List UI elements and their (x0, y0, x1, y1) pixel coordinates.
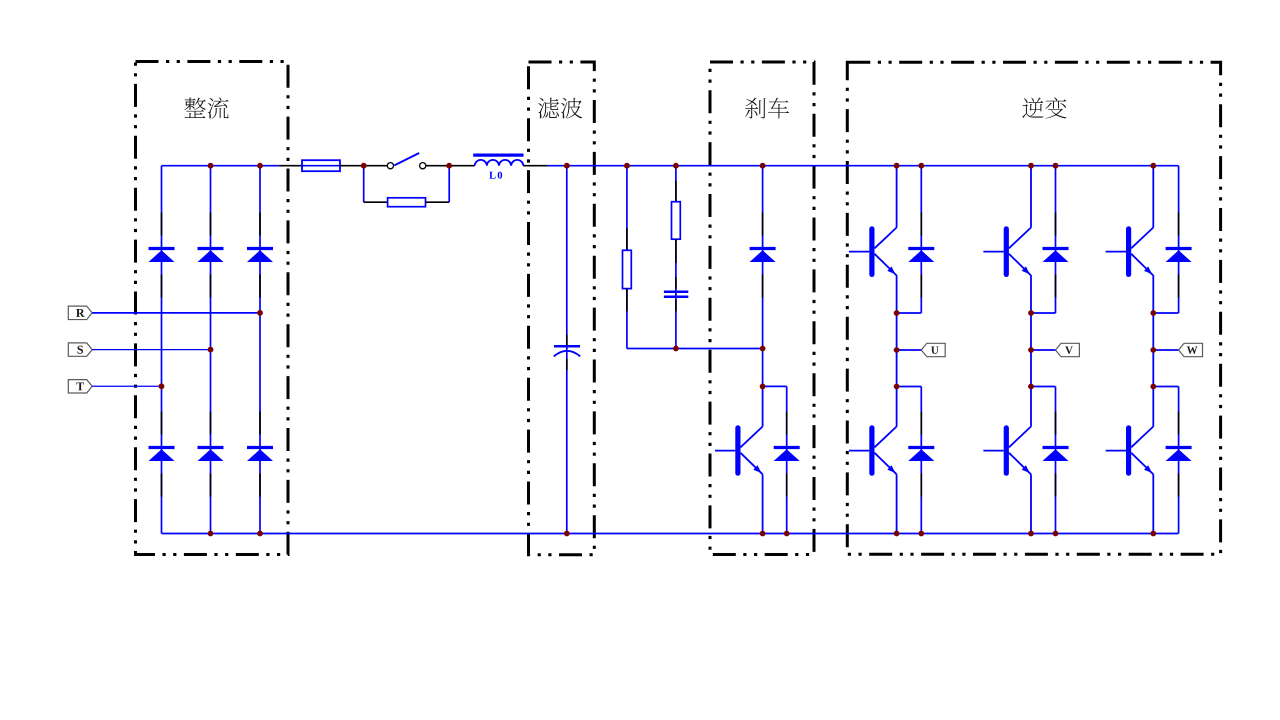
wire: leg V output (1031, 349, 1056, 351)
wire: leg U lower collector (896, 387, 898, 427)
junction: bottom bus x=896.6 (894, 531, 900, 537)
wire: leg U upper collector (896, 166, 898, 228)
wire: leg V upper emitter (1030, 275, 1032, 313)
wire: leg W midpoint (1152, 313, 1154, 387)
wire: leg W upper diode branch (1178, 166, 1180, 313)
inductor L0 (473, 155, 523, 179)
section box: inverter 逆变 (847, 62, 1220, 554)
wire: leg W upper diode return (1153, 312, 1178, 314)
junction: top bus x=1153.3 (1150, 163, 1156, 169)
junction: top bus x=1055.5 (1053, 163, 1059, 169)
junction: brake RC node (673, 346, 679, 352)
wire: bypass loop right rise (448, 166, 450, 203)
wire: rectifier leg 3 vertical (259, 166, 261, 534)
wire: phase S input (92, 349, 210, 351)
wire: brake diode branch (762, 166, 764, 349)
junction: leg V lower collector node (1028, 384, 1034, 390)
transistor Q4 (inverter V high side) (983, 228, 1031, 276)
diode D11 (leg V upper freewheel) (1043, 213, 1069, 298)
wire: filter capacitor branch (566, 166, 568, 534)
title 滤波 (filter) (538, 98, 582, 119)
section box: filter 滤波 (529, 62, 595, 555)
capacitor C1 (DC bus electrolytic) (554, 346, 580, 356)
wire: leg V lower collector (1030, 387, 1032, 427)
resistor R3 (672, 202, 681, 240)
section box: rectifier 整流 (136, 62, 289, 555)
wire: bypass loop left drop (363, 166, 365, 203)
wire: leg V upper diode branch (1055, 166, 1057, 313)
wire: rectifier leg 2 vertical (210, 166, 212, 534)
capacitor C2 (snubber) (664, 292, 688, 297)
junction: top bus x=921.3 (918, 163, 924, 169)
pin: fuse left lead (279, 165, 302, 167)
junction: leg V output node (1028, 347, 1034, 353)
wire: Q1 collector (762, 386, 764, 426)
junction: top bus x=566.8 (564, 163, 570, 169)
pin: charging resistor right lead (426, 201, 450, 203)
junction: leg W output node (1150, 347, 1156, 353)
junction: leg U lower collector node (894, 384, 900, 390)
wire: leg U lower emitter (896, 474, 898, 533)
wire: brake node drop (762, 349, 764, 387)
junction: leg W upper emitter node (1150, 310, 1156, 316)
port W (1179, 343, 1203, 356)
pin: C1 top lead (566, 335, 568, 346)
wire: rectifier leg 1 vertical (161, 166, 163, 534)
wire: leg W upper collector (1152, 166, 1154, 228)
wire: to brake freewheel diode (763, 385, 787, 387)
junction: top bus x=260 (257, 163, 263, 169)
pin: R3 top lead (675, 181, 677, 202)
pin: R3 bottom lead (675, 239, 677, 263)
junction: top bus x=363.7 (361, 163, 367, 169)
wire: leg V lower diode feed (1031, 386, 1056, 388)
junction: bottom bus x=1055.5 (1053, 531, 1059, 537)
diode D1 (rectifier top row) (149, 213, 175, 298)
junction: bottom bus x=260 (257, 531, 263, 537)
section box: brake 刹车 (710, 62, 814, 555)
junction: bottom bus x=1031.0 (1028, 531, 1034, 537)
port R (68, 306, 92, 319)
wire: top DC+ bus (547, 165, 1179, 167)
junction: top bus x=449.2 (446, 163, 452, 169)
transistor Q2 (inverter U high side) (849, 228, 897, 276)
diode D7 (brake) (750, 213, 776, 298)
junction: brake collector node (760, 384, 766, 390)
wire: leg W lower emitter (1152, 474, 1154, 533)
wire: brake network bottom rail (627, 348, 763, 350)
title 刹车 (brake) (745, 98, 789, 119)
junction: top bus x=896.6 (894, 163, 900, 169)
wire: leg U lower diode branch (920, 387, 922, 534)
wire: leg U upper diode return (897, 312, 922, 314)
diode D8 (brake freewheel) (774, 412, 800, 497)
wire: leg V upper collector (1030, 166, 1032, 228)
junction: T phase node (159, 383, 165, 389)
diode D3 (rectifier top row) (247, 213, 273, 298)
junction: top bus x=675.9 (673, 163, 679, 169)
wire: leg U midpoint (896, 313, 898, 387)
diode D9 (leg U upper freewheel) (908, 213, 934, 298)
transistor Q5 (inverter V low side) (983, 427, 1031, 475)
transistor Q3 (inverter U low side) (849, 427, 897, 475)
junction: top bus x=210.5 (208, 163, 214, 169)
junction: top bus x=626.9 (624, 163, 630, 169)
wire: leg V lower emitter (1030, 474, 1032, 533)
wire: leg W lower collector (1152, 387, 1154, 427)
pin: inductor left lead (449, 165, 475, 167)
diode D5 (rectifier bottom row) (198, 412, 224, 497)
junction: leg V upper emitter node (1028, 310, 1034, 316)
diode D10 (leg U lower freewheel) (908, 412, 934, 497)
diode D6 (rectifier bottom row) (247, 412, 273, 497)
wire: bottom DC- bus (162, 533, 1179, 535)
junction: leg U upper emitter node (894, 310, 900, 316)
wire: phase T input (92, 385, 161, 387)
wire: leg U lower diode feed (897, 386, 922, 388)
wire: leg W lower diode branch (1178, 387, 1180, 534)
wire: leg W lower diode feed (1153, 386, 1178, 388)
port T (68, 380, 92, 393)
resistor R1 (charging resistor) (388, 198, 426, 207)
junction: top bus x=762.6 (760, 163, 766, 169)
junction: S phase node (208, 347, 214, 353)
title 整流 (rectifier) (184, 97, 228, 118)
pin: R2 bottom lead (626, 289, 628, 312)
diode D4 (rectifier bottom row) (149, 412, 175, 497)
wire: brake branch B vertical (675, 166, 677, 349)
junction: leg W lower collector node (1150, 384, 1156, 390)
port S (68, 343, 92, 356)
junction: bottom bus x=921.3 (918, 531, 924, 537)
wire: leg V lower diode branch (1055, 387, 1057, 534)
pin: inductor right lead (523, 165, 547, 167)
pin: R2 top lead (626, 228, 628, 250)
fuse F1 (302, 160, 340, 171)
port U (921, 343, 945, 356)
wire: leg W upper emitter (1152, 275, 1154, 313)
wire: leg U upper diode branch (920, 166, 922, 313)
wire: leg V upper diode return (1031, 312, 1056, 314)
pin: C1 bottom lead (566, 359, 568, 370)
wire: Q1 emitter (762, 474, 764, 533)
diode D2 (rectifier top row) (198, 213, 224, 298)
pin: fuse right lead (340, 165, 364, 167)
wire: leg U upper emitter (896, 275, 898, 313)
junction: leg U output node (894, 347, 900, 353)
port V (1056, 343, 1080, 356)
junction: bottom bus x=566.8 (564, 531, 570, 537)
transistor Q7 (inverter W low side) (1106, 427, 1154, 475)
wire: leg U output (897, 349, 922, 351)
pin: charging resistor left lead (364, 201, 388, 203)
junction: bottom bus x=786.7 (784, 531, 790, 537)
title 逆变 (inverter) (1022, 97, 1066, 118)
wire: leg V midpoint (1030, 313, 1032, 387)
wire: brake branch A vertical (626, 166, 628, 349)
junction: brake diode node (760, 346, 766, 352)
wire: leg W output (1153, 349, 1178, 351)
resistor R2 (623, 250, 632, 288)
junction: top bus x=1031.0 (1028, 163, 1034, 169)
junction: bottom bus x=762.6 (760, 531, 766, 537)
pin: switch left lead (364, 165, 387, 167)
switch S1 (bypass contact) (387, 153, 426, 169)
diode D12 (leg V lower freewheel) (1043, 412, 1069, 497)
transistor Q6 (inverter W high side) (1106, 228, 1154, 276)
diode D14 (leg W lower freewheel) (1166, 412, 1192, 497)
pin: C2 top lead (675, 277, 677, 289)
pin: C2 bottom lead (675, 300, 677, 312)
wire: phase R input (92, 312, 260, 314)
wire: top bus from rectifier to fuse (162, 165, 279, 167)
transistor Q1 (brake IGBT) (715, 427, 763, 475)
diode D13 (leg W upper freewheel) (1166, 213, 1192, 298)
junction: bottom bus x=1153.3 (1150, 531, 1156, 537)
junction: bottom bus x=210.5 (208, 531, 214, 537)
pin: switch right lead (426, 165, 449, 167)
wire: brake freewheel diode branch (786, 386, 788, 533)
junction: R phase node (257, 310, 263, 316)
